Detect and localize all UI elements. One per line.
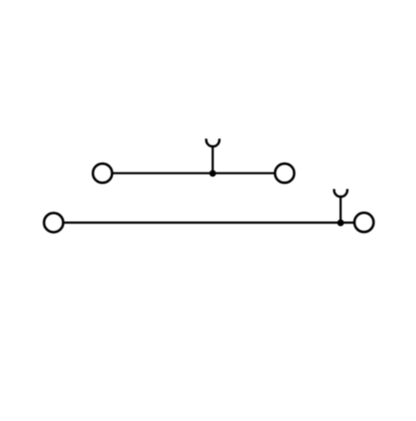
wire stem to lower test socket <box>340 196 342 223</box>
test socket (fork) upper <box>206 139 219 147</box>
junction dot upper <box>209 170 216 177</box>
test socket (fork) lower <box>334 189 347 197</box>
wire lower level <box>63 222 354 224</box>
terminal circle T4 (lower level, right) <box>354 213 373 232</box>
terminal circle T2 (upper level, right) <box>275 164 294 183</box>
wire stem to upper test socket <box>212 146 214 174</box>
junction dot lower <box>337 219 344 226</box>
wire upper level <box>112 172 275 174</box>
terminal circle T1 (upper level, left) <box>93 164 112 183</box>
terminal circle T3 (lower level, left) <box>44 213 63 232</box>
